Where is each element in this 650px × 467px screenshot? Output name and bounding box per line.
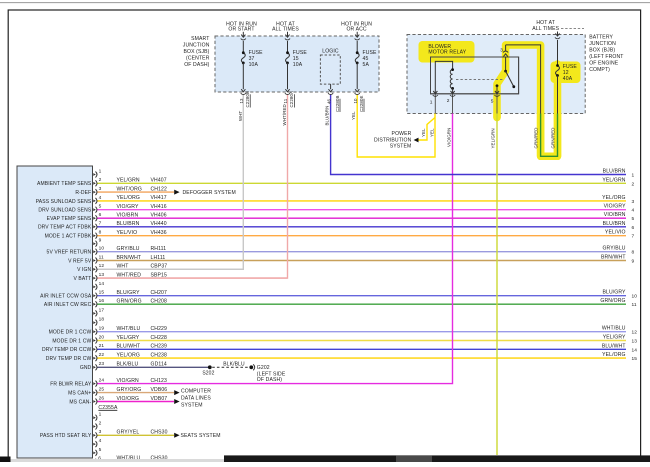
svg-text:VIO/GRY: VIO/GRY: [117, 204, 139, 210]
svg-text:MODE DR 1 CW: MODE DR 1 CW: [52, 338, 91, 344]
svg-text:CH123: CH123: [151, 378, 168, 384]
svg-text:AMBIENT TEMP SENS: AMBIENT TEMP SENS: [37, 181, 92, 187]
svg-text:1: 1: [99, 168, 102, 174]
svg-text:YEL/VIO: YEL/VIO: [117, 230, 138, 236]
svg-text:YEL/GRN: YEL/GRN: [117, 178, 140, 184]
svg-text:WHT/RED: WHT/RED: [117, 272, 142, 278]
svg-text:10: 10: [99, 246, 105, 252]
svg-text:OF DASH): OF DASH): [257, 377, 282, 383]
svg-text:VDB07: VDB07: [151, 396, 168, 402]
svg-text:6: 6: [99, 212, 102, 218]
svg-text:DRV TEMP DR CCW: DRV TEMP DR CCW: [42, 347, 91, 353]
svg-text:WHT/RED: WHT/RED: [282, 104, 287, 125]
svg-text:GRY/YEL: GRY/YEL: [117, 430, 140, 436]
svg-text:COMPUTER: COMPUTER: [181, 388, 211, 394]
svg-text:V REF 5V: V REF 5V: [68, 258, 92, 264]
svg-text:3: 3: [500, 47, 503, 53]
svg-text:V BATT: V BATT: [73, 276, 91, 282]
svg-text:BLU/GRY: BLU/GRY: [602, 290, 626, 296]
svg-text:13: 13: [632, 339, 638, 345]
svg-text:GND: GND: [80, 365, 92, 371]
svg-text:DRV TEMP DR CW: DRV TEMP DR CW: [46, 356, 92, 362]
svg-text:BLU/BRN: BLU/BRN: [603, 169, 626, 175]
svg-text:SYSTEM: SYSTEM: [181, 403, 203, 409]
svg-text:CH229: CH229: [151, 326, 168, 332]
svg-text:FR BLWR RELAY: FR BLWR RELAY: [50, 382, 92, 388]
svg-text:5: 5: [99, 447, 102, 453]
svg-text:VH417: VH417: [151, 195, 167, 201]
svg-text:CH122: CH122: [151, 186, 168, 192]
svg-text:OF ENGINE: OF ENGINE: [589, 61, 619, 67]
svg-text:10: 10: [353, 98, 358, 104]
svg-text:SYSTEM: SYSTEM: [390, 143, 412, 149]
svg-text:BLK/BLU: BLK/BLU: [117, 362, 139, 368]
svg-text:YEL/GRY: YEL/GRY: [603, 335, 626, 341]
svg-text:OR START: OR START: [228, 27, 254, 33]
svg-text:YEL/GRY: YEL/GRY: [117, 335, 140, 341]
svg-text:VH406: VH406: [151, 213, 167, 219]
svg-text:OR ACC: OR ACC: [346, 27, 366, 33]
svg-text:17: 17: [99, 307, 105, 313]
svg-text:RH111: RH111: [151, 246, 167, 252]
svg-text:PASS SUNLOAD SENS: PASS SUNLOAD SENS: [36, 199, 92, 205]
svg-text:GRY/BLU: GRY/BLU: [117, 246, 140, 252]
svg-text:21: 21: [99, 343, 105, 349]
svg-text:WHT: WHT: [117, 264, 129, 270]
svg-text:13: 13: [99, 272, 105, 278]
svg-text:CH207: CH207: [151, 290, 168, 296]
svg-text:OF DASH): OF DASH): [184, 62, 209, 68]
svg-text:9: 9: [632, 259, 635, 265]
svg-text:CH228: CH228: [151, 335, 168, 341]
svg-text:10: 10: [632, 294, 638, 300]
svg-text:2: 2: [632, 181, 635, 187]
svg-text:YEL/ORG: YEL/ORG: [117, 195, 141, 201]
svg-text:14: 14: [632, 347, 638, 353]
svg-text:GRN/ORG: GRN/ORG: [600, 298, 625, 304]
svg-text:(LEFT FRONT: (LEFT FRONT: [589, 54, 623, 60]
svg-text:MS CAN-: MS CAN-: [69, 399, 91, 405]
svg-text:COMPT): COMPT): [589, 67, 610, 73]
svg-text:S202: S202: [202, 371, 214, 377]
svg-text:5A: 5A: [363, 62, 370, 68]
svg-text:WHT/ORG: WHT/ORG: [117, 186, 142, 192]
svg-text:BLU/WHT: BLU/WHT: [602, 343, 626, 349]
svg-text:4: 4: [632, 208, 635, 214]
svg-text:46: 46: [326, 98, 331, 104]
svg-text:WHT/BLU: WHT/BLU: [117, 326, 141, 332]
svg-text:MODE 1 ACT FDBK: MODE 1 ACT FDBK: [45, 234, 92, 240]
svg-text:YEL/GRN: YEL/GRN: [490, 128, 495, 148]
svg-text:GRY/ORG: GRY/ORG: [117, 387, 142, 393]
svg-text:LH111: LH111: [151, 255, 166, 261]
svg-text:BOX (BJB): BOX (BJB): [589, 48, 615, 54]
svg-text:DRV SUNLOAD SENS: DRV SUNLOAD SENS: [38, 208, 91, 214]
svg-text:1: 1: [430, 99, 433, 105]
svg-text:GRN/RED: GRN/RED: [550, 127, 555, 148]
svg-text:VIO/GRY: VIO/GRY: [604, 204, 626, 210]
svg-text:GD114: GD114: [151, 362, 167, 368]
svg-text:4: 4: [99, 438, 102, 444]
svg-text:YEL: YEL: [351, 111, 356, 120]
svg-text:GRN/ORG: GRN/ORG: [117, 299, 142, 305]
svg-text:5: 5: [632, 216, 635, 222]
svg-text:V IGN: V IGN: [77, 267, 91, 273]
svg-text:7: 7: [99, 221, 102, 227]
svg-text:LOGIC: LOGIC: [322, 49, 339, 55]
svg-text:POWER: POWER: [392, 131, 412, 137]
svg-text:7: 7: [632, 234, 635, 240]
svg-text:C2280E: C2280E: [359, 95, 364, 112]
svg-text:6: 6: [632, 225, 635, 231]
svg-text:BRN/WHT: BRN/WHT: [117, 255, 142, 261]
svg-text:18: 18: [99, 317, 105, 323]
svg-text:C2280B: C2280B: [335, 95, 340, 112]
svg-text:5V VREF RETURN: 5V VREF RETURN: [47, 250, 92, 256]
svg-text:3: 3: [632, 199, 635, 205]
svg-text:12: 12: [99, 263, 105, 269]
svg-text:10A: 10A: [293, 62, 303, 68]
svg-text:5: 5: [99, 204, 102, 210]
svg-text:8: 8: [632, 250, 635, 256]
svg-text:8: 8: [99, 230, 102, 236]
svg-text:VIO/GRN: VIO/GRN: [117, 378, 140, 384]
svg-text:VIO/BRN: VIO/BRN: [604, 212, 626, 218]
svg-text:G202: G202: [257, 365, 270, 371]
svg-text:R-DEF: R-DEF: [75, 190, 91, 196]
svg-text:DISTRIBUTION: DISTRIBUTION: [374, 137, 412, 143]
svg-text:BLU/BRN: BLU/BRN: [325, 106, 330, 126]
svg-text:MOTOR RELAY: MOTOR RELAY: [428, 50, 466, 56]
svg-text:PASS HTD SEAT RLY: PASS HTD SEAT RLY: [40, 433, 92, 439]
svg-text:BLU/WHT: BLU/WHT: [117, 344, 141, 350]
svg-text:13: 13: [239, 98, 244, 104]
svg-text:CH239: CH239: [151, 344, 168, 350]
svg-text:DATA LINES: DATA LINES: [181, 395, 211, 401]
svg-text:YEL: YEL: [430, 128, 435, 137]
svg-text:3: 3: [99, 429, 102, 435]
svg-text:C2280B: C2280B: [245, 91, 250, 108]
svg-text:VH416: VH416: [151, 204, 167, 210]
svg-text:14: 14: [99, 281, 105, 287]
svg-text:9: 9: [99, 238, 102, 244]
svg-text:ALL TIMES: ALL TIMES: [532, 26, 559, 32]
svg-text:VIO/BRN: VIO/BRN: [117, 213, 139, 219]
svg-text:11: 11: [632, 302, 637, 308]
svg-text:24: 24: [99, 378, 105, 384]
svg-text:BLU/GRY: BLU/GRY: [117, 290, 141, 296]
svg-text:VIO/GRN: VIO/GRN: [447, 128, 452, 147]
svg-text:23: 23: [99, 361, 105, 367]
svg-text:10A: 10A: [249, 62, 259, 68]
svg-text:2: 2: [99, 420, 102, 426]
svg-text:3: 3: [99, 186, 102, 192]
svg-text:AIR INLET CW REC: AIR INLET CW REC: [44, 302, 92, 308]
svg-text:C2280A: C2280A: [289, 91, 294, 108]
svg-text:15: 15: [99, 290, 105, 296]
svg-text:YEL/ORG: YEL/ORG: [602, 195, 626, 201]
svg-text:EVAP TEMP SENS: EVAP TEMP SENS: [47, 216, 92, 222]
svg-text:2: 2: [99, 177, 102, 183]
svg-text:25: 25: [99, 387, 105, 393]
svg-text:WHT: WHT: [238, 110, 243, 121]
svg-text:16: 16: [99, 298, 105, 304]
svg-text:WHT/BLU: WHT/BLU: [602, 326, 626, 332]
svg-text:11: 11: [283, 98, 288, 103]
svg-text:YEL/ORG: YEL/ORG: [602, 352, 626, 358]
svg-text:12: 12: [632, 330, 638, 336]
svg-text:26: 26: [99, 395, 105, 401]
svg-text:VDB06: VDB06: [151, 387, 168, 393]
svg-text:DRV TEMP ACT FDBK: DRV TEMP ACT FDBK: [38, 225, 92, 231]
svg-text:BLK/BLU: BLK/BLU: [223, 361, 245, 367]
svg-text:CBP37: CBP37: [151, 264, 168, 270]
svg-text:VH407: VH407: [151, 178, 167, 184]
svg-text:BLU/BRN: BLU/BRN: [603, 221, 626, 227]
svg-text:GRN/RED: GRN/RED: [533, 127, 538, 148]
svg-text:BATTERY: BATTERY: [589, 35, 613, 41]
svg-text:GRY/BLU: GRY/BLU: [602, 246, 625, 252]
svg-text:SBP15: SBP15: [151, 272, 168, 278]
svg-text:CH238: CH238: [151, 352, 168, 358]
svg-text:VH440: VH440: [151, 221, 167, 227]
svg-text:1: 1: [632, 173, 635, 179]
svg-text:CHS30: CHS30: [151, 430, 168, 436]
svg-text:YEL/ORG: YEL/ORG: [117, 352, 141, 358]
svg-text:BOX (SJB): BOX (SJB): [184, 49, 210, 55]
svg-text:YEL/VIO: YEL/VIO: [605, 230, 626, 236]
svg-text:SEATS SYSTEM: SEATS SYSTEM: [181, 433, 221, 439]
svg-text:YEL/GRN: YEL/GRN: [602, 177, 625, 183]
svg-text:YEL: YEL: [421, 128, 426, 137]
svg-text:DEFOGGER SYSTEM: DEFOGGER SYSTEM: [183, 190, 236, 196]
svg-text:20: 20: [99, 334, 105, 340]
svg-text:BRN/WHT: BRN/WHT: [601, 255, 626, 261]
svg-text:4: 4: [99, 195, 102, 201]
svg-text:ALL TIMES: ALL TIMES: [272, 27, 299, 33]
svg-text:HOT AT: HOT AT: [536, 20, 555, 26]
svg-text:11: 11: [99, 254, 104, 260]
svg-text:2: 2: [447, 98, 450, 104]
svg-text:1: 1: [99, 412, 102, 418]
svg-text:22: 22: [99, 352, 105, 358]
svg-text:MS CAN+: MS CAN+: [68, 391, 91, 397]
svg-text:SMART: SMART: [191, 36, 209, 42]
svg-text:CH208: CH208: [151, 299, 168, 305]
svg-text:JUNCTION: JUNCTION: [183, 42, 210, 48]
svg-text:AIR INLET CCW OSA: AIR INLET CCW OSA: [40, 294, 92, 300]
svg-text:5: 5: [491, 98, 494, 104]
svg-text:40A: 40A: [563, 76, 573, 82]
svg-text:VIO/ORG: VIO/ORG: [117, 396, 140, 402]
svg-text:BLU/BRN: BLU/BRN: [117, 221, 140, 227]
svg-text:VH436: VH436: [151, 230, 167, 236]
svg-text:(CENTER: (CENTER: [186, 55, 210, 61]
svg-text:MODE DR 1 CCW: MODE DR 1 CCW: [49, 330, 92, 336]
svg-text:JUNCTION: JUNCTION: [589, 41, 616, 47]
svg-text:15: 15: [632, 356, 638, 362]
svg-text:19: 19: [99, 326, 105, 332]
